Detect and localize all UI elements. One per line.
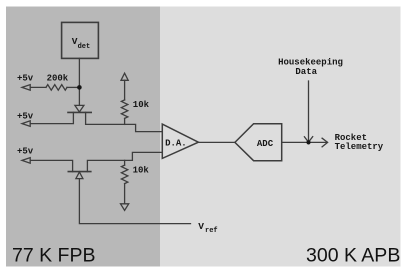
- svg-text:ref: ref: [205, 227, 218, 235]
- transistor Q1 channel bar: [68, 111, 91, 113]
- wire +5v bias through 200k to node A: [30, 86, 46, 88]
- detector box Vdet: [62, 22, 99, 58]
- resistor R2 lead to Q1 drain wire: [124, 118, 126, 124]
- svg-text:Telemetry: Telemetry: [335, 142, 384, 152]
- arrow down terminal of R3: [121, 204, 129, 211]
- svg-text:200k: 200k: [47, 73, 69, 83]
- ADC converter U2 pentagon: [235, 124, 282, 161]
- svg-text:D.A.: D.A.: [165, 138, 187, 148]
- arrow +5v terminal 2: [22, 121, 30, 127]
- svg-text:Data: Data: [295, 67, 317, 77]
- wire +5v to Q2 source: [30, 160, 72, 171]
- 77K FPB cold stage region: [6, 7, 160, 267]
- svg-text:+5v: +5v: [17, 112, 34, 122]
- wire DA output to ADC: [198, 141, 235, 143]
- svg-text:77 K FPB: 77 K FPB: [12, 245, 95, 267]
- svg-text:+5v: +5v: [17, 73, 34, 83]
- arrow +5v terminal 3: [22, 158, 30, 164]
- op-amp U1 D.A. triangle: [162, 124, 198, 158]
- wire Q2 gate to Vref: [79, 179, 190, 224]
- 300K APB warm stage region: [160, 7, 401, 267]
- svg-text:300 K APB: 300 K APB: [306, 245, 400, 267]
- node B junction dot: [306, 140, 310, 144]
- arrow up terminal of R2: [121, 73, 128, 80]
- transistor Q1 gate arrow: [75, 105, 84, 112]
- svg-text:10k: 10k: [133, 165, 150, 175]
- resistor R2 10k body: [121, 100, 127, 119]
- svg-text:10k: 10k: [133, 100, 150, 110]
- arrow +5v terminal 1: [22, 85, 30, 91]
- svg-text:+5v: +5v: [17, 146, 34, 156]
- resistor R3 10k body: [121, 165, 127, 184]
- wire Vdet output to gate of Q1: [78, 58, 80, 105]
- arrowhead housekeeping into node B: [304, 137, 312, 143]
- svg-text:det: det: [78, 43, 91, 51]
- transistor Q2 gate arrow: [76, 172, 83, 179]
- resistor R3 lead bottom: [124, 184, 126, 204]
- wire ADC output to telemetry: [282, 141, 328, 143]
- resistor R1 200k: [46, 85, 67, 91]
- resistor R3 10k lead top: [124, 160, 126, 165]
- transistor Q2 drain leg wire to DA lower input: [87, 152, 162, 171]
- svg-text:V: V: [198, 221, 204, 232]
- resistor R2 10k lead top: [124, 80, 126, 100]
- arrowhead telemetry output: [322, 138, 328, 147]
- transistor Q1 source leg: [30, 112, 73, 123]
- transistor Q1 drain leg wire to DA upper input: [86, 112, 163, 131]
- wire R1 to node A: [67, 86, 79, 88]
- transistor Q2 channel bar: [68, 171, 91, 173]
- svg-text:ADC: ADC: [257, 139, 274, 149]
- node A junction dot: [77, 85, 82, 90]
- wire housekeeping data input: [308, 81, 310, 141]
